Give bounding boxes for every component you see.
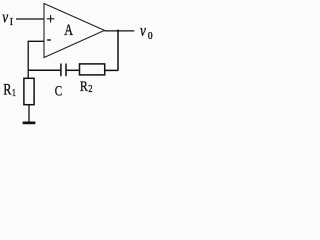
node vO [140,23,153,42]
ground [23,122,36,125]
svg-text:2: 2 [88,84,93,95]
svg-text:A: A [64,21,73,39]
wire [28,41,44,78]
wire [28,69,60,71]
svg-text:R: R [3,81,12,98]
svg-text:R: R [80,78,89,95]
resistor R2 [80,64,105,75]
op-amp inverting input - [47,39,51,41]
wire [105,30,135,32]
svg-text:1: 1 [12,88,17,99]
label R2 [80,78,93,95]
capacitor C [61,64,66,77]
label R1 [3,81,16,99]
wire [67,69,80,71]
resistor R1 [24,78,34,104]
wire [16,18,44,20]
svg-text:v: v [140,23,146,41]
node vI [2,9,13,28]
op-amp U1 [44,4,105,58]
svg-text:C: C [55,82,63,99]
op-amp non-inverting input + [47,15,54,23]
svg-text:I: I [10,17,14,29]
svg-text:v: v [2,9,8,27]
wire [105,69,119,71]
wire [28,105,30,122]
wire [117,30,119,71]
svg-text:0: 0 [148,31,153,43]
